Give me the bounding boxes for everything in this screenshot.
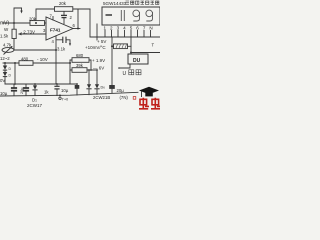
resistor 680 bbox=[72, 58, 89, 63]
svg-text:Γ+0: Γ+0 bbox=[62, 98, 68, 102]
display minus sign bbox=[106, 14, 113, 16]
wire input bbox=[3, 22, 46, 24]
wire zener D5 drop bbox=[88, 70, 90, 95]
svg-text:- 10V: - 10V bbox=[37, 57, 48, 62]
wire +5V stub bbox=[96, 24, 98, 40]
zener D6 bbox=[95, 84, 99, 88]
svg-text:20µ: 20µ bbox=[117, 88, 125, 93]
zener D5 bbox=[87, 84, 91, 88]
wire pin7 stub bbox=[52, 17, 54, 21]
svg-text:T: T bbox=[152, 43, 155, 48]
watermark red text bbox=[139, 98, 161, 109]
svg-text:1.5k: 1.5k bbox=[0, 34, 9, 39]
svg-text:20k: 20k bbox=[59, 1, 67, 6]
wire cap x14 bbox=[13, 84, 15, 96]
svg-text:0V: 0V bbox=[0, 78, 5, 83]
svg-text:4.7k: 4.7k bbox=[3, 43, 12, 48]
svg-text:2CW21B: 2CW21B bbox=[93, 95, 110, 100]
rheostat 4.7k body bbox=[2, 48, 14, 53]
wire pot branch bbox=[13, 23, 15, 50]
capacitor electrolytic x14 bbox=[11, 87, 17, 89]
watermark cap logo bbox=[139, 87, 159, 94]
wire display pins bbox=[105, 31, 151, 38]
svg-text:10µ: 10µ bbox=[61, 88, 69, 93]
resistor 39k bbox=[72, 68, 87, 73]
wire cap x112 lower bbox=[111, 89, 113, 93]
svg-text:— 6V: — 6V bbox=[93, 66, 104, 71]
svg-text:(7N): (7N) bbox=[120, 95, 129, 100]
wire x112 column bbox=[111, 37, 113, 85]
display module box bbox=[102, 7, 160, 25]
wire cap x26 bbox=[25, 84, 27, 96]
wire offset row bbox=[14, 49, 56, 51]
svg-text:+10mV/°C: +10mV/°C bbox=[85, 45, 106, 50]
svg-text:D1: D1 bbox=[32, 98, 37, 103]
wire feedback down to output bbox=[77, 9, 79, 29]
wire pin4 down bbox=[55, 36, 57, 63]
node arrow down bbox=[21, 8, 23, 11]
box DU bbox=[128, 54, 148, 64]
svg-text:480: 480 bbox=[21, 56, 29, 61]
wire cap x77 bbox=[76, 84, 78, 95]
capacitor top comp bbox=[61, 11, 67, 24]
resistor 480 bbox=[19, 61, 33, 66]
potentiometer W body bbox=[12, 29, 16, 38]
svg-text:+ 1.9V: + 1.9V bbox=[92, 58, 105, 63]
svg-text:10µ: 10µ bbox=[0, 91, 8, 96]
svg-text:U: U bbox=[123, 71, 127, 77]
capacitor x110 solid bbox=[109, 85, 115, 89]
diode D left1 bbox=[3, 66, 7, 70]
wire DU connection bbox=[119, 64, 130, 68]
display digit 9b bbox=[146, 10, 153, 21]
display digit 1 bbox=[121, 10, 124, 21]
wire noninverting input bbox=[19, 33, 46, 35]
wire pin5 column bbox=[131, 37, 160, 53]
svg-text:+ 5V: + 5V bbox=[97, 39, 106, 44]
wire cap branch pin4 bbox=[57, 40, 70, 44]
wire rail bottom bbox=[0, 92, 138, 96]
svg-text:2CW17: 2CW17 bbox=[27, 103, 43, 108]
svg-text:39k: 39k bbox=[76, 63, 84, 68]
wire zener D6 drop bbox=[94, 70, 98, 94]
junction dots bbox=[4, 22, 132, 97]
svg-text:20k: 20k bbox=[29, 17, 37, 22]
svg-text:3.1k: 3.1k bbox=[57, 47, 66, 52]
arrowhead cap branch bbox=[69, 43, 71, 46]
op-amp U1 F741 bbox=[46, 17, 73, 40]
terminal circle bbox=[59, 97, 61, 99]
wire output to display bus bbox=[89, 9, 91, 37]
wire feedback top bbox=[36, 9, 90, 23]
svg-text:F741: F741 bbox=[50, 28, 61, 33]
wire rail mid bbox=[5, 83, 77, 85]
capacitor electrolytic x26 bbox=[23, 87, 29, 89]
arrowhead wiper bbox=[18, 33, 22, 36]
zener D1 bbox=[33, 85, 37, 89]
diode D left2 bbox=[3, 72, 7, 76]
wire diode branch bbox=[4, 63, 6, 84]
capacitor x75 solid bbox=[75, 85, 80, 89]
wire cap x57 bbox=[56, 84, 58, 96]
resistor 20k input bbox=[30, 21, 45, 26]
wire zener D1 bbox=[34, 84, 36, 96]
resistor display row bbox=[114, 44, 128, 49]
capacitor pin4 plates bbox=[63, 37, 66, 43]
svg-text:680: 680 bbox=[76, 53, 84, 58]
svg-text:20µ: 20µ bbox=[20, 87, 24, 94]
wire feedback-left vertical bbox=[14, 8, 22, 23]
svg-text:D6: D6 bbox=[101, 86, 106, 90]
wire res row right bbox=[112, 45, 131, 47]
resistor 20k feedback bbox=[55, 7, 73, 12]
wire 680 row bbox=[70, 60, 91, 70]
svg-text:12~2: 12~2 bbox=[0, 56, 10, 61]
wire cap column x15 bbox=[14, 63, 16, 84]
wire x56 down bbox=[55, 63, 57, 84]
svg-text:mV): mV) bbox=[0, 21, 10, 27]
capacitor x57 bbox=[54, 85, 59, 87]
wire rail -10V bbox=[3, 62, 70, 64]
rheostat 4.7k arrow bbox=[4, 47, 13, 55]
wire x70 down bbox=[69, 60, 71, 84]
wire 39k row bbox=[70, 69, 97, 71]
svg-text:5GW14433: 5GW14433 bbox=[103, 1, 127, 6]
arrowhead top-left bbox=[20, 11, 22, 14]
svg-text:- 2.73V: - 2.73V bbox=[21, 30, 36, 35]
wire output bbox=[73, 28, 80, 30]
svg-text:1234567N: 1234567N bbox=[104, 26, 157, 31]
svg-text:DU: DU bbox=[133, 58, 141, 64]
display digit 9a bbox=[133, 10, 140, 21]
wire display bus bbox=[90, 36, 160, 38]
